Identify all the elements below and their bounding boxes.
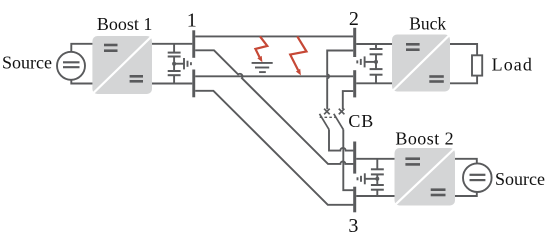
wire source V1 bottom to Boost 1 (71, 79, 93, 83)
capacitor C1 lower (dc-link at bus 1) (168, 64, 181, 84)
wire diagonal pole A bus1 to bus3 (hops over bottom line and CB pole B wire) (195, 50, 353, 164)
busbar node 2 (with gap where ground symbol box overlaps) (353, 28, 356, 98)
svg-text:Boost 2: Boost 2 (395, 129, 454, 149)
chassis ground at bus 1 midpoint (rotated earth) (174, 58, 191, 69)
svg-text:1: 1 (187, 9, 197, 31)
wire Load to Buck (bottom) (450, 76, 477, 84)
svg-text:CB: CB (348, 111, 374, 131)
wire bus2 to Buck (top rail) (356, 43, 392, 45)
busbar node 1 (with gap where ground symbol box overlaps) (192, 30, 195, 97)
breaker CB pole A (x contact + blade) (320, 109, 330, 130)
wire bus2 stub to CB pole B (343, 91, 353, 109)
wire source V1 top to Boost 1 (71, 44, 93, 53)
wire bus3 to Boost 2 (top rail) (356, 158, 394, 160)
capacitor C1 upper (dc-link at bus 1) (168, 44, 181, 64)
capacitor C3 lower (dc-link at bus 3) (371, 179, 384, 196)
chassis ground at bus 2 midpoint (rotated earth, points left) (357, 56, 376, 67)
wire Boost 2 to source V2 (top) (455, 159, 477, 164)
converter Buck (block) (392, 35, 450, 92)
wire CB pole B to bus 3 (343, 130, 353, 191)
node dot: C3 midpoint (375, 177, 379, 181)
wire bottom transmission line bus1 to bus2 (195, 75, 353, 77)
capacitor C2 lower (dc-link at bus 2) (370, 62, 383, 83)
load resistor (472, 55, 482, 75)
source V2 (right DC source circle) (463, 163, 492, 192)
capacitor C2 upper (dc-link at bus 2) (370, 44, 383, 62)
wire bus3 to Boost 2 (bottom rail) (356, 195, 394, 197)
breaker linkage (dashed) (320, 116, 337, 118)
converter Boost 2 (block) (395, 148, 456, 206)
busbar node 3 (with gap where ground symbol box overlaps) (353, 142, 356, 213)
wire bus2 stub to CB pole A (with hop over bottom line) (327, 51, 353, 110)
wire Buck to Load (top) (450, 44, 477, 55)
svg-text:2: 2 (349, 8, 359, 30)
svg-text:3: 3 (348, 215, 358, 237)
wire Boost 1 to bus 1 (top rail) (152, 43, 192, 45)
chassis ground at bus 3 midpoint (rotated earth, points left) (358, 173, 378, 184)
wire Boost 1 to bus 1 (bottom rail) (152, 83, 192, 85)
wire source V2 to Boost 2 (bottom) (455, 192, 477, 196)
node dot: C1 midpoint (172, 62, 176, 66)
wire CB pole A to bus 3 (with hop over pole B wire) (329, 130, 353, 151)
capacitor C3 upper (dc-link at bus 3) (371, 159, 384, 179)
wire diagonal pole B bus1 to bus3 (195, 91, 353, 205)
wire top transmission line bus1 to bus2 (195, 35, 353, 37)
source V1 (left DC source circle) (57, 52, 85, 80)
earth ground (fault F1) (252, 63, 273, 72)
fault arrow F2 (line-to-line fault, red) (290, 36, 306, 70)
svg-text:Source: Source (2, 53, 52, 73)
svg-text:Source: Source (495, 169, 545, 189)
wire bus2 to Buck (bottom rail) (356, 82, 392, 84)
svg-text:Load: Load (492, 55, 533, 75)
svg-text:Boost 1: Boost 1 (97, 14, 153, 34)
converter Boost 1 (block) (92, 36, 152, 94)
breaker CB pole B (x contact + blade) (334, 109, 345, 130)
node dot: C2 midpoint (374, 60, 378, 64)
fault arrow F1 (line-to-ground fault, red) (255, 36, 267, 57)
svg-text:Buck: Buck (409, 13, 446, 33)
